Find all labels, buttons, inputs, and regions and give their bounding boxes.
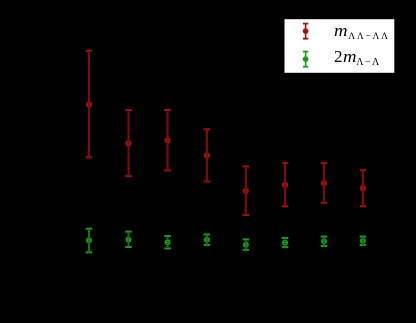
- legend red errorbar icon: [303, 24, 309, 39]
- green errorbar point 4: [204, 235, 211, 245]
- green errorbar point 8: [360, 237, 367, 245]
- green errorbar point 7: [321, 237, 328, 246]
- red errorbar point 6: [282, 163, 289, 206]
- red errorbar point 5: [243, 166, 250, 215]
- legend green errorbar icon: [303, 52, 309, 67]
- red errorbar point 7: [321, 163, 328, 203]
- green errorbar point 2: [125, 232, 132, 247]
- legend label 2m_L-L: [334, 48, 381, 71]
- green errorbar point 6: [282, 238, 289, 247]
- red errorbar point 4: [204, 129, 211, 181]
- red errorbar point 2: [125, 110, 132, 176]
- green errorbar point 3: [164, 236, 171, 248]
- red errorbar point 3: [164, 110, 171, 170]
- red errorbar point 1: [86, 51, 93, 157]
- green errorbar point 1: [86, 229, 93, 253]
- green errorbar point 5: [243, 239, 250, 250]
- legend box: [285, 19, 395, 73]
- legend label m_LL-LL: [334, 22, 390, 46]
- red errorbar point 8: [360, 170, 367, 206]
